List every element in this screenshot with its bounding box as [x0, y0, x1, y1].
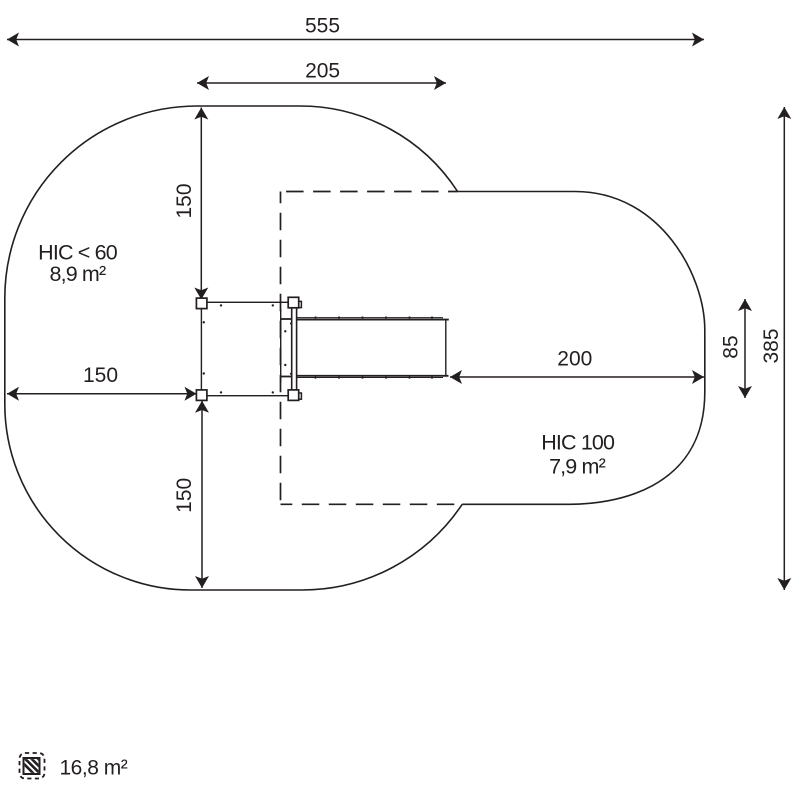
- dimension 200 line: [450, 370, 704, 384]
- slide channel dots: [284, 323, 292, 375]
- dimension 85 line: [738, 299, 752, 398]
- slide entrance bar: [292, 302, 297, 393]
- dashed falling-space rectangle: left edge: [280, 192, 282, 505]
- svg-text:205: 205: [305, 59, 340, 82]
- post top-right: [288, 297, 299, 308]
- post bottom-left: [196, 390, 207, 401]
- slide hinge bottom: [298, 393, 301, 399]
- svg-text:555: 555: [305, 14, 340, 37]
- svg-text:200: 200: [557, 347, 592, 370]
- svg-text:HIC 100: HIC 100: [541, 430, 615, 454]
- dimension 150 top vertical line: [194, 108, 208, 300]
- svg-text:16,8 m²: 16,8 m²: [60, 757, 128, 780]
- post bottom-right: [288, 390, 299, 401]
- svg-text:385: 385: [760, 328, 783, 363]
- slide end cap: [445, 320, 447, 377]
- dashed falling-space rectangle: top edge: [281, 191, 458, 193]
- dimension 385 line: [777, 107, 791, 590]
- legend hatched square: [12, 752, 70, 784]
- slide hinge top: [298, 301, 301, 307]
- slide rail rivet dots bottom: [314, 377, 433, 379]
- slide left tick bottom: [281, 376, 292, 378]
- dimension 150 bottom vertical line: [195, 401, 209, 588]
- slide rail rivet dots top: [314, 316, 433, 318]
- dimension 150 left horizontal line: [7, 387, 197, 401]
- slide frame left edge solid segment: [280, 310, 282, 383]
- svg-text:85: 85: [720, 335, 743, 358]
- svg-text:150: 150: [173, 183, 196, 218]
- svg-text:8,9 m²: 8,9 m²: [49, 262, 106, 286]
- slide left tick top: [281, 318, 292, 320]
- platform deck outline: [201, 302, 293, 395]
- slide bottom rail thick line: [297, 375, 449, 377]
- svg-text:HIC < 60: HIC < 60: [38, 240, 118, 264]
- slide bottom rail thin line: [297, 377, 444, 379]
- right safety zone outline (HIC 100): [458, 192, 705, 505]
- platform deck fastener dots: [203, 304, 274, 393]
- svg-text:150: 150: [173, 478, 196, 513]
- post top-left: [196, 298, 207, 309]
- left safety zone outline (HIC < 60): [5, 106, 462, 590]
- slide top rail thin line: [297, 317, 444, 319]
- svg-text:7,9 m²: 7,9 m²: [549, 455, 606, 479]
- dimension 555 line: [7, 33, 704, 47]
- svg-text:150: 150: [83, 364, 118, 387]
- legend dashed box: [20, 753, 45, 779]
- dashed falling-space rectangle: bottom edge: [281, 503, 463, 505]
- slide top rail thick line: [297, 319, 449, 321]
- dimension 205 line: [197, 76, 446, 90]
